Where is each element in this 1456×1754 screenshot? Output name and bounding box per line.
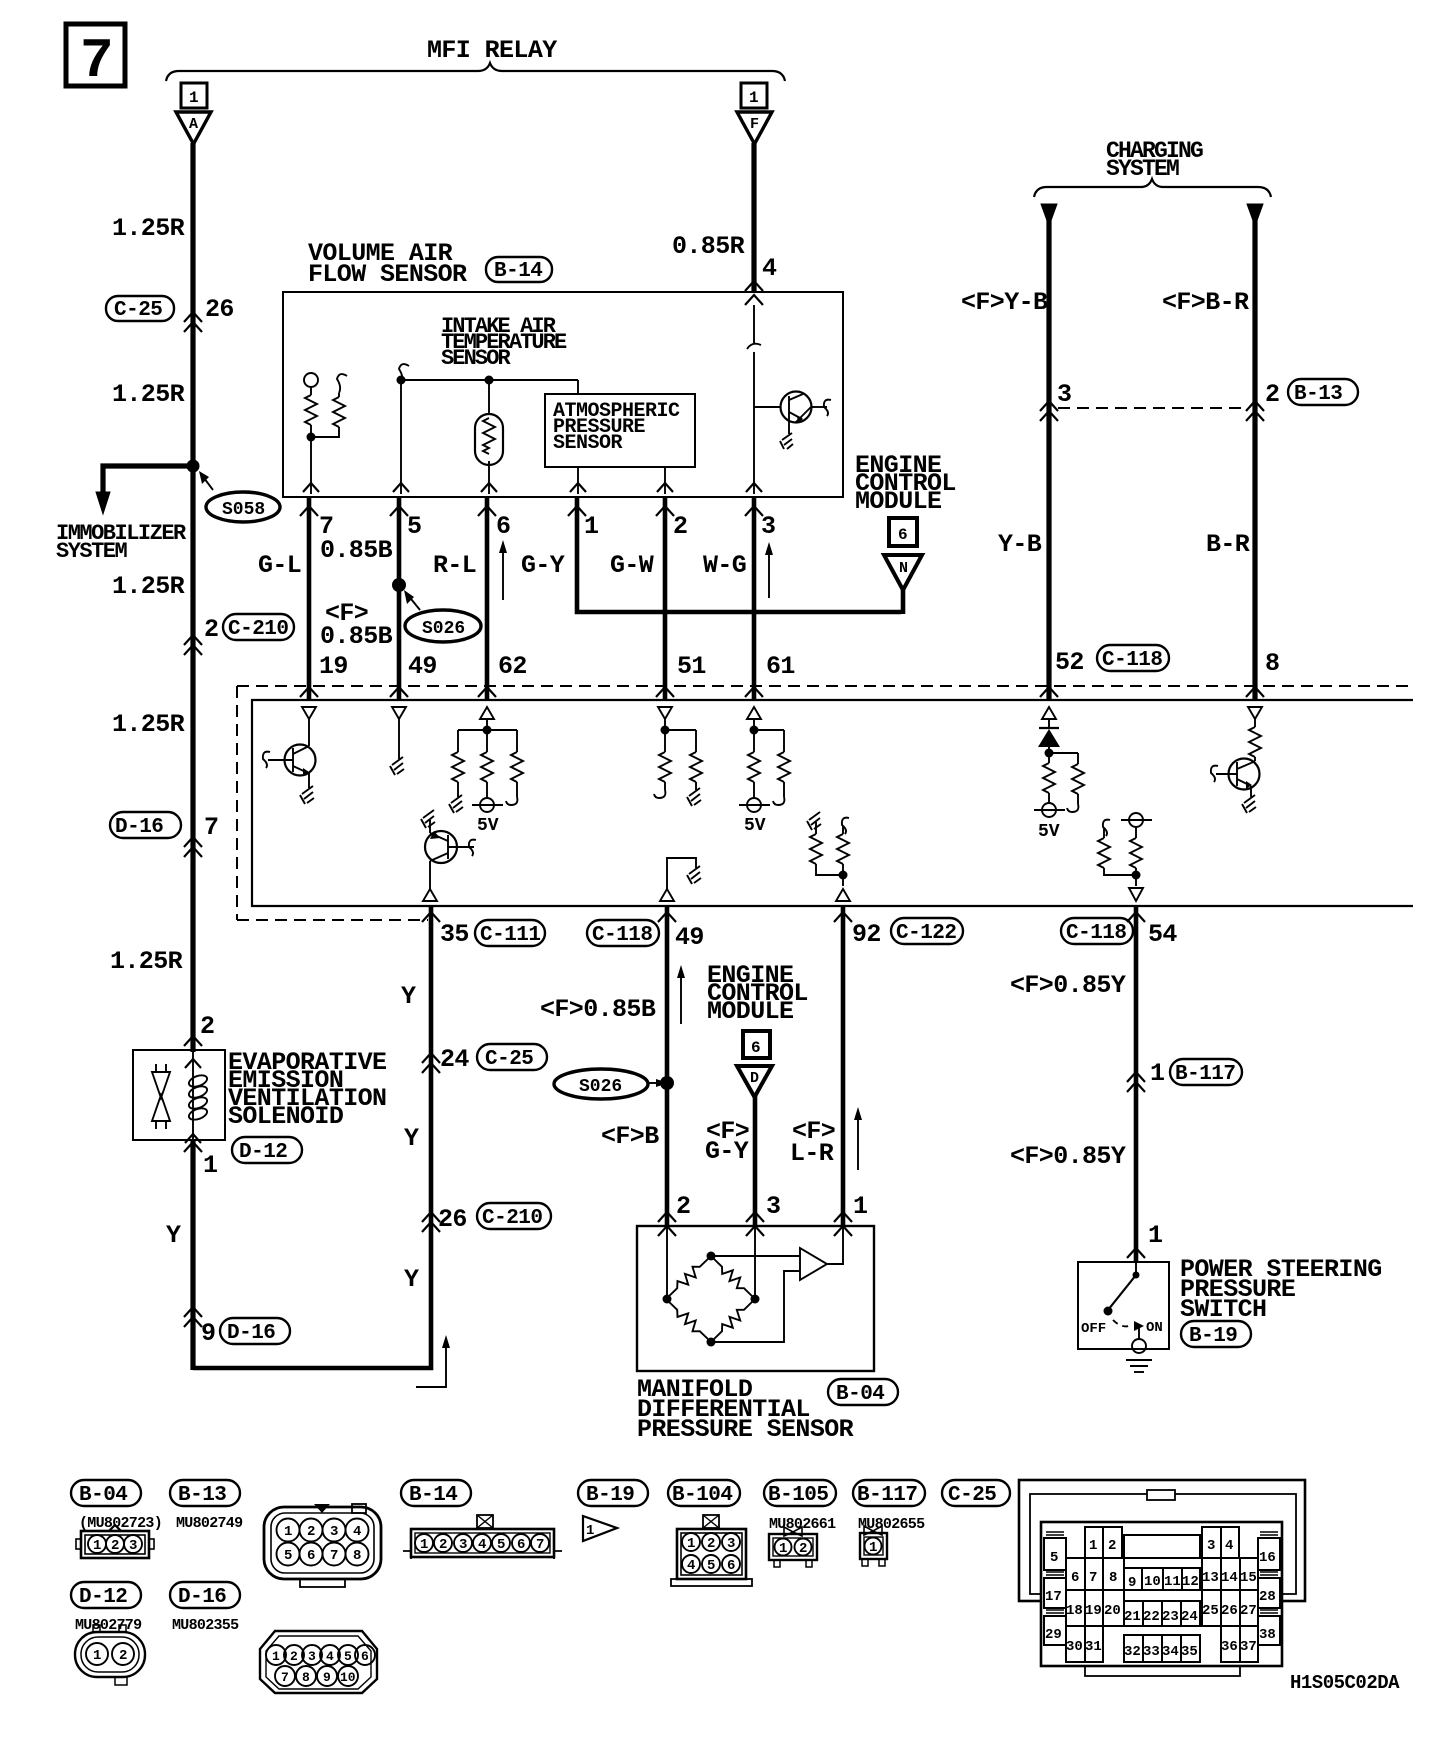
svg-text:4: 4	[687, 1558, 695, 1574]
svg-text:17: 17	[1045, 1589, 1062, 1605]
wire charging B-R	[1247, 204, 1263, 700]
splice S026 dot	[392, 578, 406, 592]
connector D-16 pinout 10pin	[260, 1631, 377, 1693]
svg-text:G-Y: G-Y	[521, 551, 565, 580]
connector oval B-105 (legend)	[764, 1480, 836, 1507]
svg-text:<F>B-R: <F>B-R	[1162, 288, 1249, 317]
svg-text:5: 5	[1050, 1550, 1058, 1566]
PSPS ground	[1126, 1360, 1152, 1372]
svg-text:B-04: B-04	[836, 1383, 884, 1406]
page number box 7	[66, 24, 125, 93]
svg-text:5: 5	[344, 1649, 352, 1664]
CHARGING SYSTEM label	[1106, 138, 1203, 182]
connector oval B-19	[1181, 1321, 1251, 1348]
ECM triangle D	[737, 1066, 772, 1097]
ECM triangle N	[884, 555, 922, 614]
svg-text:Y: Y	[401, 982, 416, 1011]
svg-text:9: 9	[201, 1319, 215, 1348]
wire charging Y-B	[1041, 204, 1057, 700]
svg-text:23: 23	[1162, 1609, 1179, 1625]
chevrons at MDPS pins	[658, 1212, 852, 1236]
svg-text:6: 6	[496, 512, 510, 541]
wire 92 ECM to MDPS pin1	[841, 906, 846, 1226]
chevron wire49 at dashed	[390, 687, 408, 697]
reference arrow up at 61	[765, 542, 773, 598]
svg-text:2: 2	[676, 1192, 690, 1221]
pin 1 B-117	[1127, 1059, 1242, 1092]
svg-text:1: 1	[749, 89, 759, 107]
svg-text:OFF: OFF	[1081, 1321, 1106, 1337]
svg-text:1.25R: 1.25R	[112, 214, 185, 243]
C-25 row3 cells	[1066, 1590, 1258, 1626]
svg-text:6: 6	[1071, 1570, 1079, 1586]
svg-text:25: 25	[1202, 1603, 1219, 1619]
svg-text:1: 1	[584, 512, 598, 541]
svg-text:MODULE: MODULE	[855, 487, 941, 516]
immobilizer branch wire	[96, 466, 193, 514]
resistor 51b to ground	[687, 752, 702, 806]
ECM in52: triangle up	[1042, 707, 1056, 719]
svg-text:7: 7	[1089, 1570, 1097, 1586]
svg-text:13: 13	[1202, 1570, 1219, 1586]
svg-text:FLOW SENSOR: FLOW SENSOR	[308, 260, 467, 289]
svg-text:4: 4	[478, 1537, 486, 1553]
svg-text:SYSTEM: SYSTEM	[1106, 156, 1179, 182]
svg-text:A: A	[189, 116, 198, 133]
MDPS pin labels 2 3 1	[676, 1192, 867, 1221]
wire VAFS pin5 to ECM pin49	[397, 497, 402, 700]
svg-text:Y-B: Y-B	[998, 530, 1042, 559]
connector B-04 pinout	[76, 1525, 154, 1558]
IMMOBILIZER SYSTEM label	[56, 521, 187, 564]
connector C-25 body	[1041, 1522, 1282, 1666]
svg-text:35: 35	[440, 920, 469, 949]
connector B-13 pinout 8pin	[264, 1504, 381, 1587]
ENGINE CONTROL MODULE label (lower)	[707, 961, 808, 1026]
svg-text:D-16: D-16	[178, 1586, 226, 1609]
svg-text:1.25R: 1.25R	[110, 947, 183, 976]
svg-text:B-14: B-14	[494, 260, 542, 283]
pin 9 D-16	[201, 1318, 290, 1348]
svg-text:B-19: B-19	[1189, 1325, 1237, 1348]
svg-text:1: 1	[420, 1537, 428, 1553]
splice S026 oval label (lower)	[554, 1069, 668, 1099]
connector oval D-12	[232, 1137, 302, 1164]
wire VAFS pin7 to ECM pin19 (G-L)	[307, 497, 312, 700]
svg-text:28: 28	[1259, 1589, 1276, 1605]
svg-text:8: 8	[1109, 1570, 1117, 1586]
page chevron double on wire A at D-16	[184, 837, 202, 857]
wire 35 (Y) ECM to solenoid loop	[193, 906, 431, 1368]
ECM 52 bus	[1045, 749, 1079, 765]
label (F) L-R	[790, 1117, 835, 1168]
svg-text:24: 24	[1181, 1609, 1198, 1625]
svg-text:3: 3	[308, 1649, 316, 1664]
C-25 right column cells	[1258, 1532, 1280, 1645]
svg-text:C-25: C-25	[485, 1048, 533, 1071]
connector B-19 flag symbol	[583, 1516, 617, 1541]
solenoid coil	[185, 1052, 209, 1143]
ECM in61: triangle up	[747, 707, 761, 719]
label (F) G-Y	[705, 1117, 749, 1166]
svg-text:8: 8	[1265, 649, 1279, 678]
svg-text:15: 15	[1240, 1570, 1257, 1586]
svg-text:3: 3	[129, 1538, 137, 1554]
svg-text:1: 1	[1150, 1059, 1164, 1088]
connector oval C-118 (54)	[1061, 918, 1133, 945]
splice S026 oval label	[404, 590, 481, 642]
svg-text:C-25: C-25	[114, 299, 162, 322]
svg-text:7: 7	[281, 1670, 289, 1685]
svg-text:7: 7	[80, 29, 114, 93]
wire VAFS pin6 to ECM pin62 (R-L)	[485, 497, 490, 700]
svg-text:C-210: C-210	[228, 618, 289, 641]
connector F box 1	[741, 83, 767, 108]
next-page arrow at loop corner	[416, 1335, 450, 1387]
ECM in19: triangle down	[302, 707, 316, 719]
evap solenoid box	[133, 1050, 225, 1140]
svg-text:SYSTEM: SYSTEM	[56, 539, 128, 564]
wire VAFS pin2 to ECM pin51 (G-W)	[663, 497, 668, 700]
ECM in49 wire	[398, 719, 400, 759]
svg-text:4: 4	[326, 1649, 334, 1664]
chevron wire19 at dashed	[300, 687, 318, 697]
wire F (0.85R)	[751, 143, 756, 293]
triangle F	[737, 112, 772, 144]
svg-text:1: 1	[272, 1649, 280, 1664]
svg-text:49: 49	[408, 652, 437, 681]
svg-text:MU802355: MU802355	[172, 1617, 239, 1634]
svg-text:10: 10	[1144, 1574, 1161, 1590]
svg-text:38: 38	[1259, 1627, 1276, 1643]
svg-text:D-12: D-12	[239, 1141, 287, 1164]
svg-text:N: N	[899, 560, 908, 577]
chevron wire62 at dashed	[478, 687, 496, 697]
svg-text:C-122: C-122	[896, 922, 957, 945]
svg-text:1: 1	[93, 1538, 101, 1554]
svg-text:2: 2	[290, 1649, 298, 1664]
connector oval D-12 (legend)	[71, 1582, 141, 1609]
svg-text:C-118: C-118	[1102, 649, 1163, 672]
svg-text:<F>0.85B: <F>0.85B	[540, 995, 656, 1024]
svg-text:1: 1	[779, 1541, 787, 1557]
resistor 61a to 5V	[739, 752, 770, 836]
connector oval B-14	[486, 257, 552, 283]
VAFS resistor R-b with hook	[311, 374, 347, 437]
wire D to MDPS pin3	[753, 1095, 758, 1226]
ENGINE CONTROL MODULE label (top)	[855, 451, 956, 516]
MDPS amplifier	[711, 1226, 843, 1342]
C-25 row2 cells	[1066, 1558, 1258, 1591]
connector label 2 C-210	[204, 614, 294, 644]
connector oval C-111	[475, 920, 545, 947]
ECM transistor Q2	[421, 810, 476, 889]
5V supply 62	[472, 798, 503, 836]
svg-text:0.85R: 0.85R	[672, 232, 745, 261]
svg-text:16: 16	[1259, 1550, 1276, 1566]
INTAKE AIR TEMPERATURE SENSOR label	[441, 314, 567, 371]
IAT sensor node wire	[399, 364, 578, 380]
IAT junction dot left	[397, 376, 406, 385]
svg-text:H1S05C02DA: H1S05C02DA	[1290, 1672, 1400, 1694]
ECM in19 wire to transistor	[308, 719, 310, 746]
svg-text:3: 3	[761, 512, 775, 541]
ECM out35: triangle up	[423, 889, 437, 901]
svg-text:S026: S026	[422, 619, 465, 639]
svg-text:2: 2	[439, 1537, 447, 1553]
svg-text:B-104: B-104	[672, 1484, 733, 1507]
svg-text:<F>0.85Y: <F>0.85Y	[1010, 971, 1126, 1000]
connector oval B-13 (legend)	[170, 1480, 240, 1507]
svg-text:3: 3	[1057, 380, 1071, 409]
svg-text:4: 4	[762, 254, 777, 283]
svg-text:49: 49	[675, 923, 704, 952]
svg-text:Y: Y	[166, 1221, 181, 1250]
ECM inner box	[252, 700, 1413, 906]
svg-text:2: 2	[119, 1648, 127, 1664]
PSPS box	[1078, 1262, 1169, 1349]
ECM in51 bus	[661, 719, 697, 752]
svg-text:C-25: C-25	[948, 1484, 996, 1507]
IAT junction dot right	[485, 376, 494, 385]
svg-text:26: 26	[1221, 1603, 1238, 1619]
ECM transistor Q1	[263, 745, 316, 789]
pin4 wire inside VAFS with break	[746, 305, 762, 494]
svg-text:6: 6	[517, 1537, 525, 1553]
svg-text:2: 2	[200, 1012, 214, 1041]
ECM out92: triangle up	[836, 889, 850, 901]
resistor pair 92 left (ground top)	[807, 812, 843, 875]
svg-text:37: 37	[1240, 1639, 1257, 1655]
svg-text:1.25R: 1.25R	[112, 710, 185, 739]
ECM in8: triangle down	[1248, 707, 1262, 719]
svg-text:C-111: C-111	[480, 924, 541, 947]
svg-text:W-G: W-G	[703, 551, 746, 580]
svg-text:7: 7	[536, 1537, 544, 1553]
zener diode 52	[1038, 719, 1060, 753]
svg-text:5V: 5V	[1038, 822, 1060, 842]
svg-text:1: 1	[203, 1151, 217, 1180]
svg-text:10: 10	[340, 1670, 356, 1685]
connector oval B-04	[828, 1379, 898, 1406]
svg-text:B-13: B-13	[178, 1484, 226, 1507]
wire to VAFS pin 5	[400, 380, 402, 494]
svg-text:1.25R: 1.25R	[112, 572, 185, 601]
solenoid valve symbol	[152, 1064, 170, 1129]
chevron at PSPS pin1	[1127, 1248, 1145, 1258]
resistor 61b with hook	[773, 752, 790, 805]
MDPS bridge	[663, 1226, 760, 1347]
svg-text:34: 34	[1162, 1644, 1179, 1660]
svg-text:C-210: C-210	[482, 1207, 543, 1230]
svg-text:2: 2	[707, 1536, 715, 1552]
ECM in62: triangle up	[480, 707, 494, 719]
svg-text:5: 5	[497, 1537, 505, 1553]
connector oval C-118 (49)	[587, 920, 659, 947]
svg-text:19: 19	[319, 652, 348, 681]
svg-text:5: 5	[407, 512, 421, 541]
svg-text:R-L: R-L	[433, 551, 476, 580]
svg-text:1: 1	[93, 1648, 101, 1664]
chevron double charging left	[1040, 401, 1058, 421]
svg-text:2: 2	[1265, 380, 1279, 409]
svg-text:G-W: G-W	[610, 551, 654, 580]
svg-text:B-105: B-105	[768, 1484, 829, 1507]
wire VAFS pin1 to ECM triangle N (G-Y)	[577, 497, 901, 612]
chevron wire52 at dashed	[1040, 687, 1058, 697]
svg-text:1: 1	[284, 1524, 292, 1540]
svg-text:5V: 5V	[744, 816, 766, 836]
svg-text:26: 26	[205, 295, 234, 324]
ECM transistor Q3	[1211, 759, 1260, 798]
ECM out49: triangle up	[660, 889, 674, 901]
svg-text:2: 2	[204, 615, 218, 644]
svg-text:18: 18	[1066, 1603, 1083, 1619]
svg-text:7: 7	[330, 1548, 338, 1564]
connector B-105 pinout 2pin	[769, 1527, 817, 1567]
wire solenoid pin1 down	[190, 1140, 195, 1370]
PSPS switch	[1081, 1262, 1163, 1353]
svg-text:PRESSURE SENSOR: PRESSURE SENSOR	[637, 1415, 854, 1444]
svg-text:Y: Y	[404, 1124, 419, 1153]
wire 49b ECM to MDPS pin2	[665, 906, 670, 1226]
resistor 52a to 5V	[1034, 763, 1065, 842]
reference arrow up at 62	[499, 540, 507, 600]
svg-text:G-Y: G-Y	[705, 1137, 749, 1166]
svg-text:36: 36	[1221, 1639, 1238, 1655]
svg-text:5V: 5V	[477, 816, 499, 836]
connector D-12 pinout 2pin oval	[75, 1625, 145, 1685]
connector oval B-13	[1288, 379, 1358, 406]
svg-text:54: 54	[1148, 920, 1177, 949]
ECM in62 bus	[458, 719, 517, 752]
connector label C-25 26	[106, 295, 234, 324]
svg-text:11: 11	[1164, 1574, 1181, 1590]
svg-text:D-16: D-16	[115, 816, 163, 839]
svg-text:L-R: L-R	[790, 1139, 834, 1168]
svg-text:B-R: B-R	[1206, 530, 1250, 559]
chevron wire61 at dashed	[745, 687, 763, 697]
connector oval C-122	[891, 918, 963, 945]
EVAPORATIVE EMISSION VENTILATION SOLENOID label	[228, 1048, 386, 1131]
svg-text:<F>0.85Y: <F>0.85Y	[1010, 1142, 1126, 1171]
connector oval B-04 (legend)	[71, 1480, 141, 1507]
svg-text:29: 29	[1045, 1627, 1062, 1643]
resistor 62c with hook	[506, 752, 523, 805]
connector oval D-16 (legend)	[170, 1582, 240, 1609]
svg-text:SOLENOID: SOLENOID	[228, 1102, 344, 1131]
svg-text:30: 30	[1066, 1639, 1083, 1655]
chevron wire8 at dashed	[1246, 687, 1264, 697]
svg-text:5: 5	[707, 1558, 715, 1574]
svg-text:1: 1	[853, 1192, 867, 1221]
connector label D-16 7	[110, 812, 218, 842]
ATMOSPHERIC PRESSURE SENSOR box	[545, 394, 695, 467]
svg-text:1: 1	[1148, 1221, 1162, 1250]
svg-text:MU802655: MU802655	[858, 1516, 925, 1533]
svg-text:S058: S058	[222, 500, 265, 520]
svg-text:4: 4	[353, 1524, 361, 1540]
svg-text:2: 2	[1108, 1538, 1116, 1554]
svg-text:9: 9	[323, 1670, 331, 1685]
resistor pair 54 left (hook top)	[1098, 820, 1136, 875]
ECM in49: triangle down	[392, 707, 406, 719]
page chevron double on wire A at C-210	[184, 635, 202, 655]
svg-text:1.25R: 1.25R	[112, 380, 185, 409]
ECM box 6 symbol	[889, 518, 917, 546]
svg-text:33: 33	[1143, 1644, 1160, 1660]
connector C-25 pinout shroud	[1019, 1480, 1305, 1601]
svg-text:B-117: B-117	[857, 1484, 918, 1507]
resistor 62b to 5V	[481, 730, 493, 798]
connector oval C-25 (legend)	[942, 1480, 1010, 1507]
svg-text:3: 3	[459, 1537, 467, 1553]
svg-text:35: 35	[1181, 1644, 1198, 1660]
ECM in61 bus	[750, 719, 785, 752]
svg-text:14: 14	[1221, 1570, 1238, 1586]
triangle A	[176, 112, 211, 144]
ECM in51: triangle down	[658, 707, 672, 719]
pin 26 C-210	[422, 1203, 551, 1234]
connector box 1 (A)	[181, 83, 207, 108]
resistor 8	[1249, 719, 1261, 761]
APS feed wire	[577, 380, 579, 394]
svg-text:31: 31	[1085, 1639, 1102, 1655]
connector B-104 pinout 6pin	[671, 1515, 752, 1586]
connector B-14 pinout 7pin	[403, 1515, 562, 1559]
connector oval C-118 (52)	[1097, 645, 1169, 672]
svg-text:3: 3	[727, 1536, 735, 1552]
svg-text:24: 24	[440, 1045, 469, 1074]
svg-text:19: 19	[1085, 1603, 1102, 1619]
svg-text:1: 1	[869, 1540, 877, 1556]
svg-text:62: 62	[498, 652, 527, 681]
svg-text:B-19: B-19	[586, 1484, 634, 1507]
chevron wire51 at dashed	[656, 687, 674, 697]
ECM outer dashed box	[237, 686, 1413, 920]
MDPS box	[637, 1226, 874, 1371]
APS wire to pin 2	[657, 467, 673, 494]
wire VAFS pin3 to ECM pin61 (W-G)	[752, 497, 757, 700]
svg-text:B-13: B-13	[1294, 383, 1342, 406]
svg-text:22: 22	[1143, 1609, 1160, 1625]
svg-text:1: 1	[687, 1536, 695, 1552]
svg-text:6: 6	[307, 1548, 315, 1564]
svg-text:C-118: C-118	[592, 924, 653, 947]
svg-text:9: 9	[1128, 1575, 1136, 1591]
splice S026 dot (lower)	[660, 1076, 674, 1090]
svg-text:SENSOR: SENSOR	[441, 346, 512, 371]
connector oval B-104 (legend)	[668, 1480, 740, 1507]
C-25 row1 cells	[1085, 1527, 1239, 1558]
ground Q3	[1242, 795, 1256, 813]
C-25 bottom tab	[1085, 1666, 1240, 1676]
svg-text:C-118: C-118	[1066, 922, 1127, 945]
splice S058 oval label	[199, 471, 280, 522]
svg-text:6: 6	[898, 526, 908, 544]
IAT thermistor	[475, 380, 503, 494]
svg-text:32: 32	[1124, 1644, 1141, 1660]
POWER STEERING PRESSURE SWITCH label	[1180, 1255, 1382, 1324]
svg-text:7: 7	[204, 813, 218, 842]
VAFS resistor R-a with terminal circle	[304, 373, 318, 437]
dashed link B-13	[1058, 407, 1248, 409]
svg-text:SWITCH: SWITCH	[1180, 1295, 1266, 1324]
svg-text:<F>B: <F>B	[601, 1122, 659, 1151]
connector oval B-14 (legend)	[401, 1480, 471, 1507]
svg-text:52: 52	[1055, 648, 1084, 677]
svg-text:B-04: B-04	[79, 1484, 127, 1507]
